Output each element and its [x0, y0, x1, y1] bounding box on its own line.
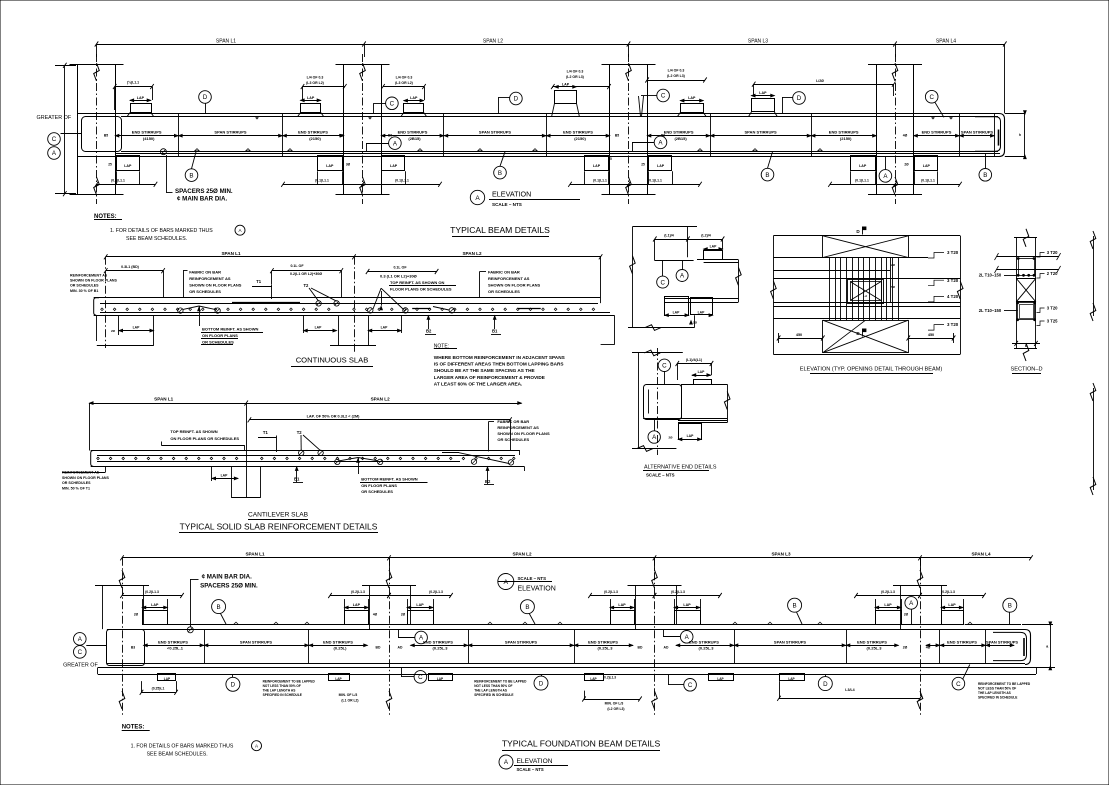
svg-text:ON FLOOR PLANS: ON FLOOR PLANS: [202, 333, 238, 338]
svg-text:BD: BD: [376, 645, 381, 649]
svg-text:LAP: LAP: [315, 326, 323, 330]
alternative end detail bottom lap box: [668, 424, 701, 441]
svg-text:(L2 OR L3): (L2 OR L3): [566, 75, 584, 79]
svg-text:SPECIFIED IN SCHEDULE: SPECIFIED IN SCHEDULE: [978, 696, 1017, 700]
svg-text:ON FLOOR PLANS: ON FLOOR PLANS: [361, 483, 397, 488]
svg-text:(0.2)L1.3: (0.2)L1.3: [351, 590, 365, 594]
span labels L1-L4: [216, 39, 956, 45]
svg-text:D: D: [514, 96, 519, 103]
svg-text:LAP: LAP: [593, 164, 601, 168]
svg-text:(L2)/4: (L2)/4: [701, 234, 711, 238]
svg-text:END STIRRUPS: END STIRRUPS: [922, 130, 952, 135]
svg-text:(0.2)L1.3: (0.2)L1.3: [881, 590, 895, 594]
svg-text:T1: T1: [263, 430, 269, 435]
svg-text:B: B: [189, 172, 193, 179]
svg-text:¢ MAIN BAR DIA.: ¢ MAIN BAR DIA.: [177, 195, 227, 202]
svg-text:SPAN L4: SPAN L4: [971, 551, 991, 556]
foundation spacer symbol and note: [187, 574, 258, 633]
svg-text:L/2Ø: L/2Ø: [816, 79, 824, 83]
notes heading (top): [94, 214, 122, 220]
svg-text:WHERE BOTTOM REINFORCEMENT IN: WHERE BOTTOM REINFORCEMENT IN ADJACENT S…: [434, 355, 565, 360]
opening bottom cross block: [823, 320, 909, 353]
svg-text:REINFORCEMENT TO BE LAPPED: REINFORCEMENT TO BE LAPPED: [263, 679, 316, 683]
svg-text:LAP: LAP: [390, 164, 398, 168]
foundation top lap boxes: [134, 603, 964, 625]
svg-text:B2: B2: [485, 479, 491, 484]
svg-text:SPAN L2: SPAN L2: [371, 397, 391, 402]
svg-text:REINFORCEMENT TO BE LAPPED: REINFORCEMENT TO BE LAPPED: [978, 682, 1031, 686]
foundation marker circles A: [398, 597, 918, 644]
title TYPICAL BEAM DETAILS: [450, 225, 550, 237]
lap length dimension brackets: [113, 69, 896, 111]
svg-text:BOTTOM REINFT. AS SHOWN: BOTTOM REINFT. AS SHOWN: [202, 327, 259, 332]
svg-text:SECTION–D: SECTION–D: [1010, 367, 1042, 373]
svg-text:TOP REINFT. AS SHOWN: TOP REINFT. AS SHOWN: [170, 429, 217, 434]
foundation column 1: [95, 558, 149, 717]
svg-text:L/4 OF 0.3: L/4 OF 0.3: [307, 76, 324, 80]
section D column lines: [1014, 229, 1037, 361]
svg-text:MIN. 30 % OF B1: MIN. 30 % OF B1: [70, 289, 98, 293]
svg-text:END STIRRUPS: END STIRRUPS: [947, 639, 977, 644]
svg-text:SHOWN ON FLOOR PLANS: SHOWN ON FLOOR PLANS: [189, 283, 242, 288]
svg-text:OR SCHEDULES: OR SCHEDULES: [202, 339, 234, 344]
svg-text:LAP: LAP: [688, 96, 696, 100]
section D upper stirrup: [1017, 258, 1035, 277]
bottom bent bars span1: [178, 306, 221, 326]
svg-text:NOT LESS THAN 50% OF: NOT LESS THAN 50% OF: [474, 684, 512, 688]
support below cantilever slab: [212, 466, 261, 498]
svg-text:FABRIC ON BAR: FABRIC ON BAR: [488, 269, 520, 274]
svg-text:450: 450: [928, 333, 934, 337]
svg-text:BOTTOM REINFT. AS SHOWN: BOTTOM REINFT. AS SHOWN: [361, 476, 418, 481]
svg-text:(L2 OR L3): (L2 OR L3): [607, 707, 624, 711]
svg-text:D: D: [231, 682, 236, 689]
svg-text:(0.1)L1.1: (0.1)L1.1: [593, 179, 607, 183]
svg-text:B: B: [498, 170, 502, 177]
svg-text:THE LAP LENGTH AS: THE LAP LENGTH AS: [263, 689, 296, 693]
svg-text:FABRIC OR BAR: FABRIC OR BAR: [497, 419, 529, 424]
section D cross block: [1016, 278, 1036, 302]
svg-text:SPAN STIRRUPS: SPAN STIRRUPS: [961, 130, 993, 135]
alternative end detail circle A: [648, 419, 660, 443]
svg-text:OR SCHEDULES: OR SCHEDULES: [361, 489, 393, 494]
svg-text:REINFORCEMENT AS: REINFORCEMENT AS: [497, 425, 539, 430]
marker circle A col2: [366, 137, 401, 151]
svg-text:D: D: [203, 94, 208, 101]
sheet edge break line upper right: [1090, 231, 1096, 321]
elevation marker (top beam): [470, 190, 580, 208]
svg-text:SPECIFIED IN SCHEDULE: SPECIFIED IN SCHEDULE: [263, 693, 302, 697]
section marker D bottom: [856, 329, 866, 337]
svg-text:SPAN L1: SPAN L1: [216, 39, 236, 45]
span2 top reinforcement note: [380, 273, 456, 291]
svg-text:B9: B9: [388, 134, 392, 138]
svg-text:FABRIC ON BAR: FABRIC ON BAR: [189, 269, 221, 274]
foundation top lap dims: [120, 590, 986, 611]
svg-text:(2150): (2150): [574, 136, 586, 141]
svg-text:2Ø: 2Ø: [668, 436, 673, 440]
svg-text:SHOWN ON FLOOR PLANS: SHOWN ON FLOOR PLANS: [62, 476, 110, 480]
svg-text:SPAN L3: SPAN L3: [771, 551, 791, 556]
svg-text:END STIRRUPS: END STIRRUPS: [664, 130, 694, 135]
svg-text:2L T10–150: 2L T10–150: [979, 308, 1002, 313]
foundation elevation marker bottom: [499, 755, 568, 772]
svg-text:SPAN L1: SPAN L1: [154, 397, 174, 402]
svg-text:SPACERS 25Ø MIN.: SPACERS 25Ø MIN.: [200, 583, 258, 590]
svg-text:LAP: LAP: [410, 96, 418, 100]
svg-text:AD: AD: [664, 645, 669, 649]
foundation tiny note span2: [474, 679, 527, 697]
svg-text:(0.1)L1.1: (0.1)L1.1: [111, 179, 125, 183]
marker circle B span3: [761, 152, 774, 181]
svg-text:MIN. OF L/3: MIN. OF L/3: [339, 693, 358, 697]
top bar extent dimensions (continuous slab): [104, 264, 438, 298]
marker circle D span3: [782, 92, 805, 114]
svg-text:LAP: LAP: [698, 370, 706, 374]
section D width dim: [1012, 341, 1040, 348]
top reinforcement note (cantilever): [161, 429, 244, 450]
cantilever slab outline: [91, 451, 525, 472]
svg-text:T1: T1: [256, 279, 262, 284]
B1 label (cantilever): [293, 466, 303, 482]
svg-text:0.1L OF: 0.1L OF: [393, 266, 407, 270]
marker circle C col3: [639, 89, 670, 116]
svg-text:SPAN L3: SPAN L3: [748, 39, 768, 45]
svg-text:SPAN STIRRUPS: SPAN STIRRUPS: [986, 639, 1018, 644]
svg-text:END STIRRUPS: END STIRRUPS: [563, 130, 593, 135]
svg-text:(0.2)L1.3: (0.2)L1.3: [671, 590, 685, 594]
svg-text:END STIRRUPS: END STIRRUPS: [588, 639, 618, 644]
greater-of label and circles C A (left): [37, 115, 82, 159]
left reinforcement note (continuous slab): [70, 273, 118, 293]
svg-text:LAP: LAP: [335, 677, 342, 681]
svg-text:(0.25L.3: (0.25L.3: [867, 646, 883, 651]
foundation marker circles D: [226, 674, 832, 691]
title SECTION D: [1010, 367, 1042, 374]
alternative end detail beam: [643, 384, 730, 422]
svg-text:THE LAP LENGTH AS: THE LAP LENGTH AS: [474, 689, 507, 693]
bar labels right (opening detail): [928, 250, 959, 330]
opening detail outer frame: [771, 236, 963, 355]
slab support centerline mid: [354, 257, 356, 352]
svg-text:(0.25L.3: (0.25L.3: [699, 646, 715, 651]
svg-text:SHOWN ON FLOOR PLANS: SHOWN ON FLOOR PLANS: [70, 279, 118, 283]
svg-text:C: C: [661, 93, 666, 100]
svg-text:CANTILEVER SLAB: CANTILEVER SLAB: [248, 512, 309, 519]
opening bottom dimensions: [777, 333, 956, 343]
left reinforcement note (cantilever): [62, 466, 110, 490]
svg-text:LAP: LAP: [590, 677, 597, 681]
svg-text:B: B: [1008, 602, 1012, 609]
svg-text:25: 25: [108, 163, 112, 167]
foundation right anchorage cap: [993, 632, 1027, 660]
B2 B1 labels: [425, 315, 501, 334]
marker circle B span4: [979, 154, 992, 182]
svg-text:SPACERS 25Ø MIN.: SPACERS 25Ø MIN.: [175, 188, 233, 195]
svg-text:2Ø: 2Ø: [904, 613, 909, 617]
end detail column line: [628, 227, 697, 331]
svg-text:SPECIFIED IN SCHEDULE: SPECIFIED IN SCHEDULE: [474, 693, 513, 697]
svg-text:L3/L4: L3/L4: [845, 688, 854, 692]
svg-text:(L1)/4: (L1)/4: [664, 234, 674, 238]
svg-text:LAP: LAP: [657, 164, 665, 168]
svg-text:LAP: LAP: [381, 326, 389, 330]
svg-text:LAP: LAP: [884, 603, 892, 607]
svg-text:REINFORCEMENT TO BE LAPPED: REINFORCEMENT TO BE LAPPED: [474, 679, 527, 683]
svg-text:END STIRRUPS: END STIRRUPS: [398, 130, 428, 135]
svg-text:GREATER OF: GREATER OF: [37, 115, 72, 121]
svg-text:END STIRRUPS: END STIRRUPS: [829, 130, 859, 135]
svg-text:3 T20: 3 T20: [1047, 250, 1058, 255]
svg-text:ELEVATION: ELEVATION: [517, 758, 553, 765]
svg-text:0.1L OF: 0.1L OF: [290, 264, 304, 268]
svg-text:D: D: [797, 95, 802, 102]
marker circle B span1: [185, 152, 198, 182]
svg-text:LAP: LAP: [710, 244, 718, 248]
svg-text:SHOWN ON FLOOR PLANS: SHOWN ON FLOOR PLANS: [497, 431, 550, 436]
svg-text:(0.25L.3: (0.25L.3: [433, 646, 449, 651]
svg-text:(0.1)L1.1: (0.1)L1.1: [855, 179, 869, 183]
foundation top bar hatch: [234, 622, 972, 624]
svg-text:LAP: LAP: [151, 603, 159, 607]
foundation stirrup dividers: [205, 629, 986, 664]
T2 label and bent bars (cantilever): [297, 430, 324, 456]
svg-text:SCALE – NTS: SCALE – NTS: [492, 202, 522, 207]
svg-text:SPAN STIRRUPS: SPAN STIRRUPS: [479, 130, 511, 135]
svg-text:END STIRRUPS: END STIRRUPS: [298, 130, 328, 135]
section D lower stirrup: [1017, 302, 1036, 321]
svg-text:END STIRRUPS: END STIRRUPS: [423, 639, 453, 644]
svg-text:C: C: [418, 674, 423, 681]
marker circle A col3: [632, 136, 667, 151]
svg-text:1. FOR DETAILS OF BARS MARKE: 1. FOR DETAILS OF BARS MARKED THUS: [131, 744, 234, 750]
svg-text:SPAN L1: SPAN L1: [245, 551, 265, 556]
foundation span dimension line: [120, 551, 1033, 571]
svg-text:SCALE – NTS: SCALE – NTS: [646, 472, 675, 477]
continuous slab outline: [94, 298, 615, 345]
svg-text:4 T20: 4 T20: [947, 294, 959, 299]
alternative end detail top lap box: [694, 380, 712, 385]
end detail beam lines: [655, 260, 741, 328]
svg-text:B: B: [217, 604, 221, 611]
svg-text:LAP: LAP: [618, 603, 626, 607]
svg-text:SPAN L2: SPAN L2: [512, 551, 532, 556]
svg-text:SPAN STIRRUPS: SPAN STIRRUPS: [240, 639, 272, 644]
right end bent bars (cantilever): [442, 453, 514, 466]
end detail circles C A: [657, 261, 688, 289]
svg-text:C: C: [662, 363, 667, 370]
svg-text:END STIRRUPS: END STIRRUPS: [158, 639, 188, 644]
svg-text:(0.1)L1.1: (0.1)L1.1: [921, 179, 935, 183]
svg-text:IS OF DIFFERENT AREAS THEN BOT: IS OF DIFFERENT AREAS THEN BOTTOM LAPPIN…: [434, 362, 564, 367]
top bar segments near supports: [232, 303, 541, 309]
bottom lap dimensions: [95, 171, 962, 187]
svg-text:2Ø: 2Ø: [134, 613, 139, 617]
svg-text:4Ø: 4Ø: [903, 134, 908, 138]
svg-text:SPAN L2: SPAN L2: [483, 39, 503, 45]
cantilever slab span dimension line: [89, 397, 521, 451]
svg-text:LAP: LAP: [687, 434, 695, 438]
svg-text:2Ø: 2Ø: [693, 321, 698, 325]
svg-text:TYPICAL FOUNDATION BEAM DET: TYPICAL FOUNDATION BEAM DETAILS: [502, 739, 661, 749]
svg-text:0.2(L1 OR L2)+30Ø: 0.2(L1 OR L2)+30Ø: [290, 272, 322, 276]
stirrup spacing dimension line: [115, 135, 994, 137]
stirrup zone labels: [104, 130, 994, 141]
svg-text:REINFORCEMENT AS: REINFORCEMENT AS: [189, 276, 231, 281]
note 1 text (top): [110, 225, 245, 242]
svg-text:2Ø: 2Ø: [891, 263, 896, 267]
svg-text:C: C: [688, 682, 693, 689]
foundation tiny note span1: [263, 679, 316, 697]
foundation column 3: [628, 558, 682, 717]
svg-text:25: 25: [608, 157, 612, 161]
title TYPICAL SOLID SLAB REINFORCEMENT DETAILS: [179, 522, 378, 533]
svg-text:D: D: [539, 680, 544, 687]
svg-text:LAP: LAP: [859, 164, 867, 168]
svg-text:A: A: [504, 579, 509, 586]
svg-text:(L2 OR L3): (L2 OR L3): [667, 74, 685, 78]
marker circle C col2: [373, 97, 398, 113]
svg-text:AD: AD: [398, 645, 403, 649]
svg-text:2L T10–150: 2L T10–150: [979, 273, 1002, 278]
svg-text:LAP: LAP: [698, 311, 706, 315]
svg-text:SPAN L2: SPAN L2: [462, 251, 482, 256]
fabric note span1: [183, 269, 242, 297]
svg-text:ELEVATION: ELEVATION: [518, 586, 556, 593]
svg-text:SEE BEAM SCHEDULES.: SEE BEAM SCHEDULES.: [147, 751, 208, 757]
B2 label (cantilever): [484, 466, 494, 484]
svg-text:3 T20: 3 T20: [947, 278, 959, 283]
svg-text:LAP: LAP: [353, 603, 361, 607]
foundation stirrup dimension line: [144, 644, 1015, 646]
svg-text:SPAN L1: SPAN L1: [221, 251, 241, 256]
svg-text:h: h: [1019, 133, 1021, 137]
svg-text:(0.25L.3: (0.25L.3: [598, 646, 614, 651]
bent bars span2: [368, 288, 455, 313]
svg-text:T2: T2: [304, 283, 310, 288]
right bar anchorage cap: [975, 117, 1001, 152]
alternative end detail lines: [632, 348, 683, 455]
svg-text:OR SCHEDULES: OR SCHEDULES: [189, 289, 221, 294]
svg-text:(¼)L1.1: (¼)L1.1: [127, 81, 139, 85]
svg-text:END STIRRUPS: END STIRRUPS: [689, 639, 719, 644]
svg-text:C: C: [78, 649, 83, 656]
svg-text:(0.1)L1.1: (0.1)L1.1: [648, 179, 662, 183]
svg-text:LAP: LAP: [437, 677, 444, 681]
opening interior dims: [891, 258, 896, 302]
svg-text:25: 25: [641, 163, 645, 167]
svg-text:GREATER OF: GREATER OF: [63, 662, 98, 668]
bottom reinforcement note span1: [201, 327, 263, 345]
svg-text:THE LAP LENGTH AS: THE LAP LENGTH AS: [978, 691, 1011, 695]
svg-text:0.3L1 (BD): 0.3L1 (BD): [121, 265, 140, 269]
svg-text:B5: B5: [339, 134, 343, 138]
foundation right depth dim: [1022, 622, 1055, 670]
svg-text:LAP: LAP: [133, 326, 141, 330]
svg-text:SCALE – NTS: SCALE – NTS: [518, 576, 547, 581]
svg-text:B1: B1: [294, 476, 300, 481]
svg-text:ELEVATION (TYP. OPENING DETAIL: ELEVATION (TYP. OPENING DETAIL THROUGH B…: [800, 367, 943, 373]
svg-text:LAP: LAP: [683, 603, 691, 607]
svg-text:SHOWN ON FLOOR PLANS: SHOWN ON FLOOR PLANS: [488, 283, 541, 288]
svg-text:2 T20: 2 T20: [1047, 271, 1058, 276]
svg-text:A: A: [475, 195, 480, 202]
end detail dims: [653, 227, 724, 261]
longitudinal bars (opening detail): [773, 258, 960, 319]
foundation bottom lap boxes: [158, 674, 805, 681]
svg-text:BD: BD: [638, 645, 643, 649]
svg-text:(2150): (2150): [840, 136, 852, 141]
svg-text:(0.2)L1.3: (0.2)L1.3: [429, 590, 443, 594]
svg-text:ALTERNATIVE END DETAILS: ALTERNATIVE END DETAILS: [644, 465, 717, 471]
svg-text:OR SCHEDULES: OR SCHEDULES: [488, 289, 520, 294]
sheet edge break line lower right: [1090, 383, 1096, 495]
lap dimension (cantilever): [248, 414, 512, 450]
svg-text:SCALE – NTS: SCALE – NTS: [517, 767, 544, 772]
svg-text:ELEVATION: ELEVATION: [492, 190, 531, 199]
svg-text:(0.25)L1: (0.25)L1: [152, 686, 165, 690]
svg-text:LAP. OF 50% OR 0.3L2 < (2M): LAP. OF 50% OR 0.3L2 < (2M): [307, 414, 361, 418]
stirrups at opening: [830, 258, 899, 320]
svg-text:L/4 OF 0.3: L/4 OF 0.3: [396, 76, 413, 80]
svg-text:END STIRRUPS: END STIRRUPS: [323, 639, 353, 644]
bottom reinforcement note (cantilever): [360, 476, 428, 494]
svg-text:(4150): (4150): [143, 136, 155, 141]
svg-text:OR SCHEDULES: OR SCHEDULES: [70, 284, 99, 288]
marker circle A col4: [879, 156, 892, 182]
svg-text:3 T25: 3 T25: [1047, 319, 1058, 324]
svg-text:TYPICAL BEAM DETAILS: TYPICAL BEAM DETAILS: [450, 225, 550, 235]
svg-text:4Ø: 4Ø: [373, 613, 378, 617]
foundation column 2: [362, 558, 416, 717]
svg-text:T2: T2: [297, 430, 303, 435]
svg-text:2Ø: 2Ø: [903, 645, 908, 649]
svg-text:LAP: LAP: [673, 311, 681, 315]
svg-text:SPAN L4: SPAN L4: [936, 39, 956, 45]
svg-text:(0.2)L1.3: (0.2)L1.3: [603, 675, 616, 679]
svg-text:LAP: LAP: [137, 96, 145, 100]
svg-text:(0.25L): (0.25L): [334, 646, 348, 651]
svg-text:OR SCHEDULES: OR SCHEDULES: [62, 481, 91, 485]
svg-text:5Ø: 5Ø: [891, 285, 896, 289]
svg-text:3 T20: 3 T20: [1047, 306, 1058, 311]
svg-text:SHOULD BE AT THE SAME SPACING: SHOULD BE AT THE SAME SPACING AS THE: [434, 368, 535, 373]
marker circle B span2: [494, 152, 507, 179]
svg-text:¢ MAIN BAR DIA.: ¢ MAIN BAR DIA.: [202, 574, 252, 581]
svg-text:END STIRRUPS: END STIRRUPS: [132, 130, 162, 135]
svg-text:C: C: [52, 136, 57, 143]
svg-text:(2150): (2150): [309, 136, 321, 141]
foundation marker circles B: [212, 598, 1017, 624]
left bar anchorage cap: [82, 117, 122, 152]
svg-text:LAP: LAP: [923, 164, 931, 168]
svg-text:2Ø: 2Ø: [904, 163, 909, 167]
section D slab lines: [995, 253, 1061, 273]
slab support left: [97, 315, 154, 346]
T2 label and bent bars: [304, 283, 340, 306]
svg-text:(0.2)L1.3: (0.2)L1.3: [604, 590, 618, 594]
svg-text:2Ø: 2Ø: [401, 613, 406, 617]
svg-text:LAP: LAP: [307, 96, 315, 100]
svg-text:B: B: [793, 602, 797, 609]
svg-text:B: B: [525, 604, 529, 611]
svg-text:SPAN STIRRUPS: SPAN STIRRUPS: [774, 639, 806, 644]
marker circle D span2: [499, 92, 523, 113]
T1 label (cantilever): [258, 430, 277, 452]
foundation bottom lap dims: [140, 675, 922, 711]
svg-text:L/4 OF 0.3: L/4 OF 0.3: [668, 69, 685, 73]
note block (continuous slab): [434, 343, 565, 386]
